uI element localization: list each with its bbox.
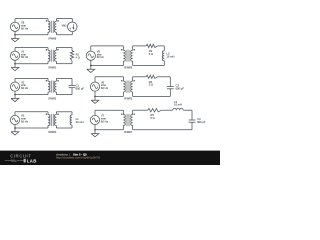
wire <box>15 47 48 49</box>
junction at V8 ground tap <box>14 34 16 36</box>
svg-text:5 Ω: 5 Ω <box>149 83 153 87</box>
label V3 sine 60 Hz <box>21 114 29 124</box>
wire <box>56 63 72 65</box>
capacitor C2 <box>167 87 174 89</box>
label C1 600 &#181;F <box>76 84 85 91</box>
label V2 sine 60 Hz <box>21 80 29 90</box>
svg-text:sine: sine <box>21 52 26 56</box>
capacitor C1 <box>69 78 76 94</box>
junction at V9 ground tap <box>90 65 92 67</box>
label R5 5 &#937; <box>150 113 154 120</box>
wire <box>133 76 147 78</box>
CircuitLab logo CIRCUIT <box>10 154 31 159</box>
label V8 sine 60 Hz <box>21 21 29 31</box>
inductor L2 <box>162 51 164 61</box>
wire <box>56 94 72 96</box>
svg-text:60 Hz: 60 Hz <box>97 55 105 59</box>
label XFMR3 <box>48 131 57 134</box>
junction at V7 ground tap <box>94 129 96 131</box>
wire <box>15 77 48 79</box>
wire <box>15 111 48 113</box>
wire <box>15 127 48 129</box>
svg-text:V8: V8 <box>21 21 25 25</box>
wire <box>95 109 123 111</box>
svg-text:L1: L1 <box>76 117 79 121</box>
wire <box>56 127 72 129</box>
svg-text:C2: C2 <box>176 84 180 88</box>
voltage source V1 <box>10 48 19 64</box>
footer url <box>56 156 100 160</box>
ground <box>91 96 99 103</box>
svg-text:R2: R2 <box>149 49 153 53</box>
label C2 600 &#181;F <box>176 84 185 91</box>
wire <box>95 95 123 97</box>
svg-text:R5: R5 <box>150 113 154 117</box>
svg-text:C3: C3 <box>197 117 201 121</box>
wire <box>56 77 72 79</box>
label L1 16 mH <box>76 117 84 124</box>
wire <box>56 19 72 22</box>
svg-text:600 µF: 600 µF <box>197 120 206 124</box>
wire <box>56 47 72 49</box>
wire <box>95 129 123 131</box>
svg-text:600 µF: 600 µF <box>76 87 85 91</box>
wire <box>133 61 165 66</box>
voltmeter VM1 <box>68 22 78 32</box>
svg-text:4 Ω: 4 Ω <box>76 56 80 60</box>
svg-text:R1: R1 <box>76 53 80 57</box>
svg-text:sine: sine <box>101 83 106 87</box>
svg-text:XFMR2: XFMR2 <box>48 98 57 101</box>
resistor R2 <box>146 44 157 47</box>
transformer XFMR2 <box>46 78 59 94</box>
svg-text:XFMR7: XFMR7 <box>124 131 133 134</box>
inductor L3 <box>173 108 183 110</box>
label L2 16 mH <box>167 52 175 59</box>
svg-text:V2: V2 <box>21 80 25 84</box>
wire <box>133 109 148 111</box>
voltage source V6 <box>90 77 99 97</box>
label R4 5 &#937; <box>149 80 153 87</box>
svg-text:LAB: LAB <box>27 159 37 164</box>
ground <box>11 35 19 42</box>
label VM1 <box>62 24 68 27</box>
wire <box>183 110 192 120</box>
ground <box>11 128 19 135</box>
svg-text:XFMR8: XFMR8 <box>48 38 57 41</box>
resistor R5 <box>148 109 162 112</box>
voltage source V2 <box>10 78 19 94</box>
svg-text:sine: sine <box>101 117 106 121</box>
label V7 sine 60 Hz <box>101 114 109 124</box>
svg-text:XFMR6: XFMR6 <box>124 67 133 70</box>
svg-text:XFMR1: XFMR1 <box>48 67 57 70</box>
svg-text:5 Ω: 5 Ω <box>149 52 153 56</box>
wire <box>133 122 192 130</box>
ground <box>91 130 99 137</box>
wire <box>15 34 48 36</box>
svg-text:V3: V3 <box>21 114 25 118</box>
wire <box>157 77 170 87</box>
wire <box>133 89 171 97</box>
svg-text:C1: C1 <box>76 84 80 88</box>
label V6 sine 60 Hz <box>101 80 109 90</box>
label V1 sine 60 Hz <box>21 49 29 59</box>
transformer XFMR8 <box>46 19 59 35</box>
svg-text:60 Hz: 60 Hz <box>101 86 109 90</box>
inductor L1 <box>70 112 72 128</box>
wire <box>157 46 164 51</box>
wire <box>161 109 173 111</box>
transformer XFMR6 <box>121 46 135 66</box>
label R2 5 &#937; <box>149 49 153 56</box>
svg-text:16 mH: 16 mH <box>174 103 182 107</box>
svg-text:5 Ω: 5 Ω <box>150 116 154 120</box>
svg-text:sine: sine <box>21 83 26 87</box>
svg-text:60 Hz: 60 Hz <box>101 120 109 124</box>
CircuitLab logo LAB <box>27 159 37 164</box>
footer user and title <box>56 153 87 157</box>
label C3 600 &#181;F <box>197 117 206 124</box>
svg-text:sine: sine <box>21 117 26 121</box>
wire <box>15 18 48 20</box>
transformer XFMR5 <box>121 77 135 97</box>
svg-text:http://circuitlab.com/c4cjr6b1: http://circuitlab.com/c4cjr6b1p5h7t6 <box>56 156 100 160</box>
svg-text:60 Hz: 60 Hz <box>21 120 29 124</box>
svg-text:600 µF: 600 µF <box>176 87 185 91</box>
junction at V6 ground tap <box>94 96 96 98</box>
transformer XFMR1 <box>46 48 59 64</box>
footer bar <box>0 151 220 165</box>
ground <box>11 64 19 71</box>
label XFMR7 <box>124 131 133 134</box>
junction at V2 ground tap <box>14 94 16 96</box>
svg-text:V6: V6 <box>101 80 105 84</box>
svg-text:sine: sine <box>97 52 102 56</box>
ground <box>11 95 19 102</box>
transformer XFMR3 <box>46 112 59 128</box>
svg-text:L2: L2 <box>167 52 170 56</box>
svg-text:XFMR5: XFMR5 <box>124 98 133 101</box>
voltage source V3 <box>10 112 19 128</box>
svg-text:V7: V7 <box>101 114 105 118</box>
label L3 16 mH <box>174 100 182 107</box>
svg-text:16 mH: 16 mH <box>167 55 175 59</box>
label V9 sine 60 Hz <box>97 49 105 59</box>
svg-text:VM1: VM1 <box>62 24 68 27</box>
svg-text:CIRCUIT: CIRCUIT <box>10 154 31 159</box>
voltage source V9 <box>86 46 95 66</box>
CircuitLab logo trace <box>5 159 26 163</box>
wire <box>15 94 48 96</box>
capacitor C3 <box>189 120 196 122</box>
resistor R4 <box>146 75 157 78</box>
wire <box>56 32 72 35</box>
voltage source V7 <box>90 110 99 130</box>
label XFMR1 <box>48 67 57 70</box>
svg-text:60 Hz: 60 Hz <box>21 26 29 30</box>
svg-text:V9: V9 <box>97 49 101 53</box>
ground <box>87 66 95 73</box>
voltage source V8 <box>10 19 19 35</box>
label XFMR8 <box>48 38 57 41</box>
wire <box>91 65 124 67</box>
label XFMR6 <box>124 67 133 70</box>
wire <box>133 45 147 47</box>
resistor R1 <box>70 48 73 64</box>
wire <box>95 76 123 78</box>
svg-text:V: V <box>69 27 71 31</box>
svg-text:60 Hz: 60 Hz <box>21 55 29 59</box>
wire <box>56 111 72 113</box>
junction at V3 ground tap <box>14 127 16 129</box>
svg-text:16 mH: 16 mH <box>76 120 84 124</box>
svg-text:XFMR3: XFMR3 <box>48 131 57 134</box>
label XFMR2 <box>48 98 57 101</box>
svg-text:60 Hz: 60 Hz <box>21 86 29 90</box>
wire <box>91 45 124 47</box>
svg-text:V1: V1 <box>21 49 25 53</box>
transformer XFMR7 <box>121 110 135 130</box>
wire <box>15 63 48 65</box>
label XFMR5 <box>124 98 133 101</box>
svg-text:R4: R4 <box>149 80 153 84</box>
svg-text:sine: sine <box>21 23 26 27</box>
junction at V1 ground tap <box>14 63 16 65</box>
label R1 4 &#937; <box>76 53 80 60</box>
